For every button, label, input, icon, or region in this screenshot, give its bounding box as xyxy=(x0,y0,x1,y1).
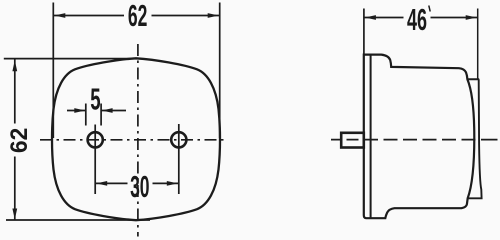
dim 46 extension line right xyxy=(477,9,479,80)
dim 5 arrow right xyxy=(102,108,113,113)
dim 62 left arrow down xyxy=(12,209,17,220)
hole circle left xyxy=(88,132,103,147)
lens rim ledge top xyxy=(467,78,480,80)
svg-text:46: 46 xyxy=(407,3,427,37)
lens front face outer line and bottom ledge xyxy=(467,79,482,198)
dim 62 left arrow up xyxy=(12,60,17,71)
dim 46 extension line left xyxy=(363,9,365,54)
lens outline front view xyxy=(52,58,220,220)
svg-text:30: 30 xyxy=(130,170,149,204)
dim 30 arrow left xyxy=(96,181,107,186)
hole left vertical centerline xyxy=(94,125,96,195)
centerline side view xyxy=(331,139,498,141)
stud connector xyxy=(341,133,364,148)
housing back plate inner line xyxy=(370,55,372,218)
dim 46 arrow left xyxy=(365,15,376,20)
wire: left dim extension line bottom xyxy=(6,219,150,221)
svg-text:62: 62 xyxy=(6,128,33,153)
wire: top dim extension line left xyxy=(52,3,54,139)
wire: top dim extension line right xyxy=(219,3,221,139)
housing outline side view xyxy=(364,55,475,219)
dim 5 extension line left xyxy=(85,104,87,126)
centerline vertical front view xyxy=(137,44,139,237)
dim 46 arrow right xyxy=(466,15,477,20)
dim 30 arrow right xyxy=(167,181,178,186)
svg-text:5: 5 xyxy=(90,83,100,117)
wire: top dimension line 62 xyxy=(53,15,124,17)
dim 5 line right tail xyxy=(101,110,126,112)
dim 62 top arrow left xyxy=(54,13,65,18)
dim 5 extension line right xyxy=(100,104,102,126)
prime tick after 46 xyxy=(429,6,430,12)
hole right vertical centerline xyxy=(178,124,180,194)
dim 46 line xyxy=(364,17,404,19)
svg-text:62: 62 xyxy=(128,0,147,34)
dim 30 line xyxy=(95,182,127,184)
dim 5 arrow left xyxy=(74,108,85,113)
hole circle right xyxy=(171,132,186,147)
dim 5 line left tail xyxy=(67,110,86,112)
dim 62 top arrow right xyxy=(208,13,219,18)
wire: left dim extension line top xyxy=(4,58,139,60)
centerline horizontal front view xyxy=(40,139,226,141)
wire: left dimension line 62 vertical xyxy=(14,60,16,124)
